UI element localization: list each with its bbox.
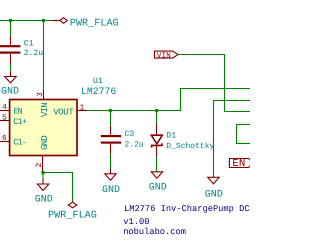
svg-text:v1.00: v1.00 <box>123 217 149 227</box>
svg-text:4: 4 <box>2 103 7 112</box>
svg-text:D_Schottky: D_Schottky <box>166 142 214 151</box>
power flag top <box>52 18 119 30</box>
junction chip GND <box>41 171 45 175</box>
svg-text:C1: C1 <box>24 39 34 48</box>
svg-text:LM2776 Inv-ChargePump DC: LM2776 Inv-ChargePump DC <box>124 204 250 214</box>
svg-text:C1-: C1- <box>13 137 26 147</box>
svg-text:GND: GND <box>102 185 120 196</box>
global label VIN <box>155 51 179 60</box>
svg-text:5: 5 <box>2 113 7 122</box>
svg-text:GND: GND <box>35 195 53 206</box>
ground under chip <box>35 179 53 206</box>
svg-text:VOUT: VOUT <box>53 108 74 118</box>
wire D1 bottom lead <box>156 156 158 172</box>
pin 1 VOUT right <box>53 104 87 118</box>
svg-text:EN: EN <box>232 158 245 170</box>
sheet box right edge <box>237 125 255 144</box>
svg-text:VIN: VIN <box>40 103 50 117</box>
pin 5 C1+ <box>0 113 27 127</box>
wire top-left horizontal VIN rail <box>0 20 52 22</box>
svg-text:2.2u: 2.2u <box>125 141 144 150</box>
wire chip-gnd to pwr_flag bottom <box>43 173 73 202</box>
pin 2 GND bottom <box>35 136 50 173</box>
svg-text:PWR_FLAG: PWR_FLAG <box>70 19 119 30</box>
svg-text:PWR_FLAG: PWR_FLAG <box>48 210 97 221</box>
svg-text:U1: U1 <box>93 77 103 86</box>
wire D1 top lead <box>156 111 158 125</box>
svg-text:GND: GND <box>205 189 223 200</box>
capacitor C1 <box>0 36 43 64</box>
wire VOUT net to right edge <box>88 89 251 111</box>
op-amp-box U1 LM2776 body <box>10 77 117 155</box>
svg-text:2: 2 <box>35 163 44 168</box>
svg-text:3: 3 <box>36 92 45 97</box>
wire chip GND drop <box>42 173 44 179</box>
svg-text:D1: D1 <box>166 132 176 141</box>
svg-text:6: 6 <box>2 134 7 143</box>
svg-text:GND: GND <box>149 183 167 194</box>
svg-text:1: 1 <box>80 104 85 113</box>
svg-text:EN: EN <box>13 106 22 116</box>
ground under C1 <box>1 71 19 98</box>
junction at U1 VIN drop <box>42 19 46 23</box>
svg-text:2.2u: 2.2u <box>24 49 43 58</box>
junction C3 <box>109 109 113 113</box>
svg-text:GND: GND <box>40 136 50 150</box>
wire C1 bottom lead <box>10 64 12 72</box>
pin 4 EN <box>0 103 22 116</box>
wire C3 bottom lead <box>110 154 112 169</box>
wire C1 top lead <box>10 21 12 37</box>
ground under C3 <box>102 169 120 197</box>
global label EN <box>229 158 253 170</box>
svg-text:GND: GND <box>1 87 19 98</box>
wire GND right net <box>214 101 251 178</box>
wire U1 VIN vertical <box>43 21 45 91</box>
pin 6 C1- <box>0 134 26 147</box>
svg-text:LM2776: LM2776 <box>81 86 116 97</box>
ground right <box>205 177 223 200</box>
svg-text:VIN: VIN <box>157 51 171 60</box>
wire C3 top lead <box>110 111 112 126</box>
power flag bottom <box>48 201 97 221</box>
ground under D1 <box>149 172 167 194</box>
junction D1 <box>155 109 159 113</box>
diode D1 D_Schottky <box>151 125 214 157</box>
capacitor C3 <box>101 126 144 154</box>
svg-text:C3: C3 <box>125 130 135 139</box>
junction at C1 top <box>9 19 13 23</box>
pin 3 VIN top <box>36 91 50 118</box>
svg-text:C1+: C1+ <box>13 117 27 127</box>
svg-text:nobulabo.com: nobulabo.com <box>123 227 186 237</box>
wire VIN label to right edge <box>178 55 250 112</box>
